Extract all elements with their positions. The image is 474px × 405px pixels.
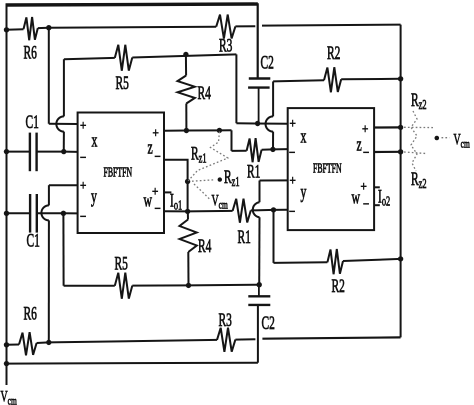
node z1-/Rz1 junction [185, 179, 190, 184]
wire y1+ vertical lower part [48, 220, 50, 342]
label R6 top [24, 43, 38, 63]
capacitor C2 (top) lower plate [248, 86, 270, 88]
svg-text:w: w [352, 188, 361, 208]
svg-text:R1: R1 [238, 227, 251, 247]
svg-text:R3: R3 [219, 36, 233, 56]
svg-text:x: x [301, 127, 307, 147]
svg-text:y: y [301, 182, 307, 202]
wire C2 bottom upper lead [258, 285, 260, 297]
wire R2 to right bus [341, 78, 400, 81]
capacitor C2 (bottom) upper plate [248, 295, 270, 297]
node Rz1 bullet [218, 177, 222, 181]
svg-text:−: − [80, 150, 86, 165]
node left-bus/R6 junction [4, 27, 9, 32]
wire R5 bottom left lead [64, 285, 115, 287]
wire R2 bottom to right bus [343, 259, 401, 261]
label Vcm right [454, 130, 470, 151]
wire hop over y1- wire [41, 205, 49, 220]
wire z2+ output [374, 126, 401, 128]
pin U1 w- mark [155, 201, 161, 216]
svg-text:Io2: Io2 [378, 187, 390, 209]
wire C1 left lead [7, 151, 30, 153]
dashed Vcm lead [442, 137, 450, 139]
resistor R2 (top) [324, 67, 341, 92]
label U1 FBFTFN [104, 165, 133, 180]
wire y2- into block2 [274, 209, 288, 211]
label U1 port w [144, 191, 153, 211]
dashed Rz1 node line [192, 180, 214, 181]
node R2-top/right-bus junction [398, 76, 403, 81]
wire R4 bottom bottom lead [187, 252, 189, 285]
svg-text:R6: R6 [24, 304, 38, 324]
svg-text:−: − [363, 196, 369, 211]
wire R6-R3 top rail left segment [7, 28, 24, 31]
capacitor C1 (bottom) right plate [36, 194, 38, 233]
svg-text:+: + [153, 125, 159, 140]
wire right bus bottom horizontal [262, 337, 400, 338]
resistor R4 (top) [178, 76, 195, 104]
wire z1+ output [164, 129, 232, 131]
node R6-bottom/vertical junction [46, 340, 51, 345]
resistor R4 (bottom) [180, 220, 197, 253]
wire R1 bottom to y2- junction [251, 209, 274, 212]
label R6 bottom [24, 304, 38, 324]
label U2 port x [301, 127, 307, 147]
svg-text:−: − [80, 209, 86, 224]
pin U1 w+ stub [164, 191, 171, 193]
wire R4 bottom lead [185, 104, 187, 131]
pin U2 y- mark [289, 204, 295, 219]
svg-text:C2: C2 [261, 53, 274, 73]
svg-text:x: x [92, 131, 98, 151]
wire w1 output [164, 210, 233, 213]
resistor R5 (top) [115, 45, 133, 71]
label R1 top [247, 162, 260, 182]
wire z1+ step down [231, 130, 233, 151]
label C2 top [261, 53, 274, 73]
wire x2+ horizontal to block2 [236, 122, 287, 125]
wire R5 right corner vertical down [235, 54, 237, 123]
resistor R1 (top) [247, 138, 262, 162]
wire step to R1 [232, 150, 247, 152]
wire R3 to crossing [235, 25, 255, 27]
wire R6 bottom left lead [7, 344, 20, 346]
capacitor C1 (top) left plate [29, 133, 31, 172]
wire R5 left vertical upper part [63, 59, 65, 116]
svg-text:z: z [148, 138, 153, 158]
svg-text:R4: R4 [198, 236, 212, 256]
wire z1- output [164, 160, 188, 212]
node Vcm bullet [435, 136, 440, 141]
pin U2 x+ mark [290, 116, 296, 131]
node R4-bottom/R5 junction [186, 283, 191, 288]
label R4 bottom [198, 236, 212, 256]
node z1+/R4 junction [184, 128, 189, 133]
label Io2 [378, 187, 390, 209]
dashed resistor Rz1 zigzag [188, 132, 228, 181]
label U1 port z [148, 138, 153, 158]
label R3 bottom [219, 310, 233, 330]
pin U1 w+ mark [152, 184, 158, 199]
wire R5 to right corner [132, 54, 236, 57]
op-amp block U1 FBFTFN [78, 113, 164, 234]
node y2- junction [271, 207, 276, 212]
dashed Rz2 top node line [404, 126, 434, 128]
pin U2 w- mark [363, 196, 369, 211]
node x2- junction [270, 147, 275, 152]
svg-text:+: + [362, 121, 368, 136]
wire R5 bottom to C2 junction [132, 284, 259, 287]
resistor R5 (bottom) [115, 273, 133, 299]
wire y2- vertical down [273, 210, 275, 263]
svg-text:R1: R1 [247, 162, 260, 182]
wire R5 top left corner/lead [64, 58, 115, 59]
wire R2 vertical upper part [272, 81, 274, 116]
wire C2 top lead from top rail [257, 3, 259, 78]
node left-bus/C1-bottom junction [4, 211, 9, 216]
pin U2 y+ mark [290, 173, 296, 188]
svg-text:R6: R6 [24, 43, 38, 63]
node w1 junction [185, 209, 190, 214]
wire x1+ vertical from R6 junction [48, 28, 50, 124]
wire R4 top lead [185, 55, 187, 76]
node z2+/right-bus junction [398, 125, 403, 130]
wire R4 bottom top lead [187, 211, 189, 219]
dashed Rz1 tail to Vcm [194, 184, 211, 200]
wire R2 top corner [273, 80, 324, 81]
node left-bus/bottom-wire junction [4, 361, 9, 366]
svg-text:+: + [80, 178, 86, 193]
svg-text:+: + [152, 184, 158, 199]
wire R2 vertical lower part [272, 132, 274, 150]
wire R3 bottom to crossing [235, 338, 255, 340]
wire hop over x1+ wire [56, 116, 64, 131]
svg-text:Io1: Io1 [170, 191, 182, 213]
svg-text:Rz1: Rz1 [191, 144, 207, 166]
wire C1 bottom right lead to y1- [37, 212, 78, 214]
label Vcm middle [212, 191, 228, 212]
capacitor C2 (top) upper plate [249, 77, 270, 79]
node R6/vertical junction [46, 25, 51, 30]
svg-text:−: − [155, 201, 161, 216]
dashed Rz2 bottom node line [404, 152, 426, 154]
resistor R6 (bottom) [19, 332, 37, 355]
svg-text:z: z [357, 135, 362, 155]
wire R6 bottom to junction [37, 341, 49, 344]
label U2 port w [352, 188, 361, 208]
label C1 bottom [27, 231, 40, 251]
resistor R1 (bottom) [233, 199, 251, 223]
label C2 bottom [262, 313, 275, 333]
label Rz2 upper [411, 90, 427, 112]
svg-text:y: y [91, 187, 97, 207]
label Rz2 lower [411, 169, 427, 191]
svg-text:R5: R5 [115, 254, 129, 274]
resistor R3 (bottom) [217, 328, 235, 352]
pin U1 z+ mark [153, 125, 159, 140]
node left-bus/C1 junction [4, 149, 9, 154]
svg-text:R3: R3 [219, 310, 233, 330]
resistor R3 (top) [216, 15, 235, 39]
wire hop over y2- wire [253, 202, 260, 217]
wire R5 left vertical lower part [63, 132, 65, 152]
pin U1 x+ mark [80, 118, 86, 133]
svg-text:C1: C1 [26, 112, 39, 132]
wire C1 right lead to x1- [37, 151, 78, 153]
svg-text:+: + [290, 173, 296, 188]
svg-text:+: + [290, 116, 296, 131]
label R5 top [116, 73, 130, 93]
label U2 port y [301, 182, 307, 202]
svg-text:Vcm: Vcm [454, 130, 470, 151]
pin U2 w+ mark [361, 179, 367, 194]
wire z2- output [374, 151, 401, 153]
label U2 FBFTFN [313, 161, 342, 176]
svg-text:−: − [363, 145, 369, 160]
label R4 top [198, 83, 212, 103]
svg-text:+: + [80, 118, 86, 133]
wire left supply bus [6, 4, 8, 386]
svg-text:FBFTFN: FBFTFN [104, 165, 133, 180]
pin U2 x- mark [289, 145, 295, 160]
capacitor C1 (bottom) left plate [29, 194, 31, 233]
pin U1 y+ mark [80, 178, 86, 193]
wire y1+ horizontal into block1 [49, 184, 78, 186]
svg-text:+: + [361, 179, 367, 194]
pin U2 z- mark [363, 145, 369, 160]
wire hop over x2+ wire [266, 116, 274, 131]
svg-text:C2: C2 [262, 313, 275, 333]
wire junction to R3 bottom [49, 340, 217, 343]
wire top rail [6, 4, 258, 5]
wire C2 top lower lead [258, 88, 260, 124]
label U1 port x [92, 131, 98, 151]
label R2 bottom [332, 276, 345, 296]
svg-text:−: − [155, 149, 161, 164]
wire crossing to right bus corner [262, 25, 401, 26]
pin U2 z+ mark [362, 121, 368, 136]
pin U1 z- mark [155, 149, 161, 164]
pin U2 w- stub [374, 204, 380, 206]
node R2-bottom/right-bus junction [398, 256, 403, 261]
wire corner to R2 bottom [274, 261, 328, 264]
node left-bus/R6-bottom junction [4, 342, 9, 347]
label U1 port y [91, 187, 97, 207]
svg-text:Rz2: Rz2 [411, 90, 427, 112]
wire y2+ vertical lower part [258, 217, 260, 284]
node x2+/C2 junction [255, 121, 260, 126]
label Rz1 lower [224, 167, 240, 189]
svg-text:−: − [289, 204, 295, 219]
op-amp block U2 FBFTFN [288, 108, 374, 230]
node x1- junction [61, 149, 66, 154]
wire R6 to junction [38, 27, 49, 29]
svg-text:R2: R2 [327, 43, 340, 63]
svg-text:Vcm: Vcm [1, 387, 17, 405]
svg-text:R2: R2 [332, 276, 345, 296]
node z2-/right-bus junction [398, 149, 403, 154]
wire y1- junction vertical down to R5 bottom corner [62, 213, 64, 285]
svg-text:R5: R5 [116, 73, 130, 93]
wire R1 to x2- junction [262, 148, 273, 150]
wire x2- into block2 [273, 148, 288, 150]
wire junction to R3 [49, 27, 216, 28]
svg-text:C1: C1 [27, 231, 40, 251]
wire C2 bottom lead vertical [257, 305, 259, 363]
label U2 port z [357, 135, 362, 155]
wire C1 bottom left lead [7, 212, 30, 214]
wire right bus vertical [400, 25, 402, 338]
node y1- junction [61, 211, 66, 216]
label C1 top [26, 112, 39, 132]
pin U2 w+ stub [374, 186, 380, 188]
wire bottom rail [7, 362, 258, 365]
pin U1 x- mark [80, 150, 86, 165]
svg-text:Vcm: Vcm [212, 191, 228, 212]
node R5/C2-bottom junction [257, 282, 262, 287]
capacitor C1 (top) right plate [35, 133, 37, 172]
label R5 bottom [115, 254, 129, 274]
dashed resistor Rz2 zigzag [411, 111, 417, 171]
svg-text:Rz1: Rz1 [224, 167, 240, 189]
label R1 bottom [238, 227, 251, 247]
wire y2+ horizontal into block2 [260, 179, 288, 181]
wire x1+ horizontal into block1 [49, 123, 78, 125]
node z1+/Rz1 junction [217, 128, 222, 133]
svg-text:w: w [144, 191, 153, 211]
wire y1+ vertical upper part [48, 185, 50, 205]
label R2 top [327, 43, 340, 63]
label Io1 [170, 191, 182, 213]
svg-text:Rz2: Rz2 [411, 169, 427, 191]
resistor R6 (top) [24, 17, 38, 40]
resistor R2 (bottom) [327, 249, 343, 274]
svg-text:FBFTFN: FBFTFN [313, 161, 342, 176]
pin U1 y- mark [80, 209, 86, 224]
label Rz1 upper [191, 144, 207, 166]
capacitor C2 (bottom) lower plate [248, 304, 270, 306]
svg-text:−: − [289, 145, 295, 160]
label Vcm bottom left [1, 387, 17, 405]
label R3 top [219, 36, 233, 56]
node R5/R4-top junction [183, 52, 188, 57]
wire y2+ vertical upper part [259, 181, 261, 203]
svg-text:R4: R4 [198, 83, 212, 103]
